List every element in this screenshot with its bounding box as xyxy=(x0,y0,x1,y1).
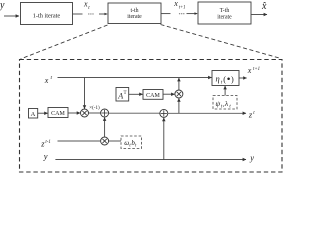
svg-text:A: A xyxy=(117,92,123,101)
box CAM2 xyxy=(143,90,163,100)
label z^t xyxy=(248,110,255,120)
svg-text:x: x xyxy=(173,0,178,8)
wire branch up into multiplier X3 xyxy=(178,98,180,113)
svg-text:x: x xyxy=(44,76,49,85)
dots xyxy=(88,13,94,14)
wire box1 to dots xyxy=(73,13,83,15)
svg-text:×(-1): ×(-1) xyxy=(89,106,100,111)
wire x^t main line into eta xyxy=(58,77,212,79)
adder P2 xyxy=(160,109,168,117)
svg-text:T: T xyxy=(124,91,127,96)
label x_{t+1} xyxy=(173,0,185,10)
dashed enclosure xyxy=(20,60,283,173)
wire P1 to P2 xyxy=(109,112,160,114)
wire P2 to z^t output xyxy=(168,112,246,114)
dashed expander right xyxy=(161,25,282,59)
svg-text:): ) xyxy=(231,75,234,84)
svg-text:1-th iterate: 1-th iterate xyxy=(33,13,61,20)
svg-text:iterate: iterate xyxy=(217,14,232,20)
svg-text:iterate: iterate xyxy=(127,14,142,20)
box A^T xyxy=(116,88,129,102)
svg-text:t-th: t-th xyxy=(130,8,138,14)
label x_t xyxy=(83,0,90,11)
svg-text:A: A xyxy=(31,111,36,118)
wire A^T to CAM2 xyxy=(129,93,143,95)
svg-text:λ: λ xyxy=(224,99,229,108)
wire X1 to adder P1 xyxy=(89,112,101,114)
svg-text:t: t xyxy=(51,75,53,81)
wire y line xyxy=(55,159,246,161)
svg-text:x: x xyxy=(247,66,252,75)
svg-text:CAM: CAM xyxy=(146,93,160,99)
svg-text:t: t xyxy=(88,6,90,11)
wire CAM2 to X3 xyxy=(163,93,175,95)
svg-text:T-th: T-th xyxy=(220,8,230,14)
wire branch down into multiplier X1 xyxy=(84,78,86,109)
wire branch up into P2 xyxy=(163,118,165,160)
wire X3 up into x^t line xyxy=(178,78,180,90)
svg-text:z: z xyxy=(248,110,253,120)
label x^{t+1} xyxy=(247,66,260,75)
svg-text:ψ: ψ xyxy=(215,99,220,108)
wire z^{t-1} into X2 xyxy=(58,140,101,142)
dots xyxy=(179,13,185,14)
box eta xyxy=(212,71,239,86)
box T-th iterate xyxy=(198,2,251,24)
wire X2 up into P1 xyxy=(104,118,106,138)
wire box3 to x-hat xyxy=(251,14,267,16)
svg-text:η: η xyxy=(216,73,220,83)
wire eta to x^{t+1} xyxy=(239,77,247,79)
dashed param box omega b xyxy=(121,136,142,149)
wire y to box1 xyxy=(4,15,19,17)
box t-th iterate xyxy=(108,3,161,24)
box CAM1 xyxy=(48,108,68,118)
svg-text:y: y xyxy=(43,151,48,161)
svg-text:y: y xyxy=(249,153,254,163)
wire omega-b box to X2 xyxy=(109,140,121,142)
wire dots to box2 xyxy=(99,13,107,15)
svg-text:CAM: CAM xyxy=(51,111,65,117)
svg-text:y: y xyxy=(0,0,5,11)
multiplier X1 xyxy=(81,109,89,117)
svg-text:t+1: t+1 xyxy=(179,5,186,10)
dashed expander left xyxy=(21,25,108,59)
wire A to CAM1 xyxy=(38,112,48,114)
svg-text:t+1: t+1 xyxy=(253,67,260,72)
label x^t xyxy=(44,75,53,85)
dashed param box psi lambda xyxy=(213,96,237,110)
wire psi-lambda up into eta xyxy=(224,86,226,96)
wire box2 to dots xyxy=(161,13,171,15)
svg-text:t-1: t-1 xyxy=(45,140,50,145)
box A xyxy=(29,109,38,119)
box 1-th iterate xyxy=(21,3,73,25)
wire CAM1 to X1 xyxy=(68,112,80,114)
wire dots to box3 xyxy=(187,13,198,15)
label z^{t-1} xyxy=(40,139,50,149)
svg-text:t: t xyxy=(253,111,255,116)
multiplier X2 xyxy=(101,137,109,145)
adder P1 xyxy=(101,109,109,117)
svg-text:x̂: x̂ xyxy=(261,1,267,12)
svg-text:(: ( xyxy=(223,75,226,84)
multiplier X3 xyxy=(175,90,183,98)
